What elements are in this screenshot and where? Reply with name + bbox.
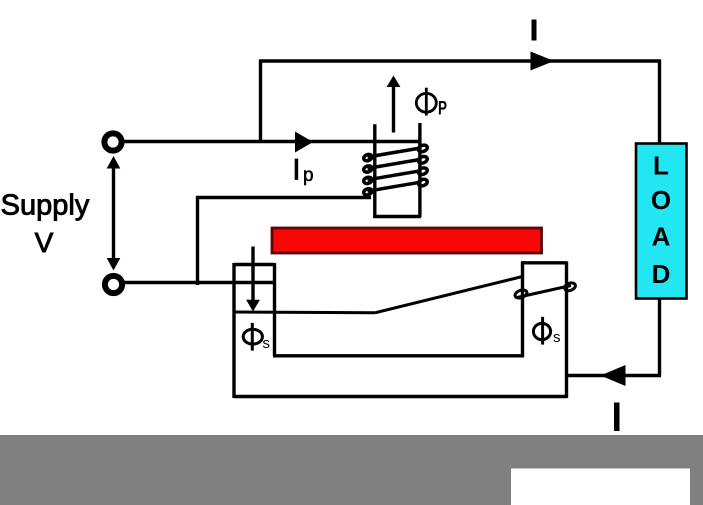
secondary outer right edge [565,262,568,399]
wire bottom to secondary [566,374,662,377]
white notch in footer [511,469,690,505]
wire top rail [259,59,661,62]
svg-text:O: O [651,185,671,215]
label phi s left symbol [243,323,262,351]
current arrow Ip [295,132,313,153]
current arrow I top [531,52,555,71]
flux arrow phi-P head [387,76,401,88]
terminal bottom [105,276,122,293]
secondary left leg inner edge [273,263,276,356]
svg-text:s: s [553,329,561,346]
coil turn 3 [363,167,428,185]
flux arrow phi-s head [246,300,260,312]
secondary inner bottom [273,354,524,357]
secondary right leg inner edge [521,262,524,357]
red plate [272,228,542,253]
secondary right leg top edge [521,261,567,264]
svg-text:p: p [303,165,314,186]
label phi P symbol [416,88,436,116]
svg-text:s: s [263,335,271,352]
secondary winding diagonal A [375,277,523,313]
svg-text:D: D [652,259,671,289]
wire supply bottom to secondary leg [124,281,275,284]
svg-text:P: P [438,99,447,120]
svg-text:A: A [652,222,671,252]
primary coil core right edge [418,123,421,217]
wire top supply to coil [124,140,420,143]
primary coil core bottom edge [374,215,422,218]
load box [636,144,687,299]
wire right rail down to load [658,60,661,145]
gray footer bar [0,435,703,505]
secondary left leg top edge [234,263,275,266]
svg-text:L: L [653,150,669,180]
coil turn 4 [363,178,428,196]
svg-text:I: I [292,154,300,187]
svg-text:V: V [35,227,54,258]
label I bottom [614,403,620,432]
svg-text:Supply: Supply [1,190,90,222]
terminal top [104,133,121,150]
voltage arrowhead down [107,258,121,271]
wire lower to coil [196,196,371,199]
coil turn 2 [363,155,428,173]
primary coil core left edge [373,124,376,218]
flux arrow phi-P shaft [392,86,395,133]
flux arrow phi-s shaft (left leg) [251,247,254,302]
wire vertical mid riser [196,197,199,286]
label I top [532,20,537,41]
current arrow I bottom [601,365,626,386]
label phi s right symbol [533,317,550,345]
wire load bottom down [658,298,661,376]
coil turn 1 [363,144,428,162]
secondary winding horizontal run [234,311,375,315]
secondary winding diagonal B [517,286,571,298]
secondary outer bottom [234,395,567,398]
secondary winding loop at leg [514,288,528,299]
voltage double arrow shaft [112,165,115,261]
voltage arrowhead up [107,156,121,169]
wire vertical up to top rail [259,60,262,144]
secondary outer left edge [232,263,235,398]
secondary winding end hook [564,282,577,293]
